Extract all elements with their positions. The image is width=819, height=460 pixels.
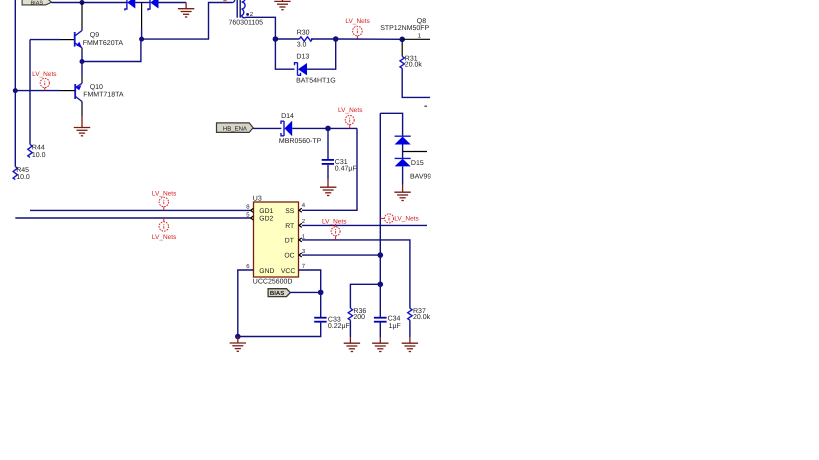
wire R30 left [275,38,299,40]
pin arrow OC [299,253,302,257]
svg-text:20.0k: 20.0k [405,61,423,69]
resistor R36 [348,308,352,320]
svg-text:DT: DT [285,238,294,245]
node junction R30 right [333,36,339,42]
svg-text:SS: SS [285,208,295,215]
svg-text:10.0: 10.0 [16,174,30,181]
net LV_Nets (RT right) [380,214,419,223]
node junction C31 top [325,126,331,132]
wire main vertical (D15 to C34) [379,113,381,317]
wire DT pin to R37 [302,240,410,308]
pin arrow DT [299,238,302,242]
ground (C33/GND) [230,343,246,351]
resistor R37 [408,308,412,320]
wire D15 to ground [402,166,404,184]
wire R31 down and right (cut) [402,68,430,97]
port HB_ENA [217,123,254,132]
frame clip right edge [431,0,819,460]
ground (top left of transformer) [178,3,194,18]
wire D14 to C31 node [292,127,357,129]
wire D15 loop top [380,113,402,136]
wire between diodes [135,2,150,4]
wire SS pin up to HB node [302,128,357,210]
net LV_Nets (HB node) [338,107,363,128]
capacitor C33 [314,318,326,322]
svg-text:BAT54HT1G: BAT54HT1G [296,77,336,84]
diode D12 (cut at top) [148,0,159,11]
transformer secondary coil [242,0,246,18]
svg-text:STP12NM50FP: STP12NM50FP [380,25,429,32]
pin Q8 gate (cut) [402,38,430,40]
Q8 source tick (cut) [424,105,427,107]
wire C31 to ground [327,165,329,179]
wire C31 stem [327,128,329,159]
node junction emitter [80,59,85,64]
transistor Q9 [60,3,82,53]
svg-text:RT: RT [285,223,294,230]
node junction tap [139,37,144,42]
pin D15 common tap (cut) [403,151,427,153]
pin arrow RT [299,223,302,227]
net LV_Nets (GD2) [152,218,177,241]
ground (D15) [394,192,410,200]
ground (R37) [402,343,418,351]
wire RT pin (cut right) [302,224,427,226]
wire emitter loop to tap [82,39,141,61]
wire C33 bottom to GND node [238,323,321,337]
node junction Q8 gate [399,37,405,43]
wire secondary pin 2 down [246,17,276,39]
svg-text:LV_Nets: LV_Nets [152,191,177,198]
wire C34 to ground [379,323,381,337]
diode D13 BAT54HT1G [295,63,308,76]
svg-text:R45: R45 [16,167,29,174]
svg-text:R44: R44 [32,145,45,152]
resistor R45 [13,167,17,180]
resistor R30 [299,37,312,41]
wire D13 loop right [307,39,336,69]
op-amp controller U3 UCC25600D [253,196,299,286]
wire R30 right [311,38,336,40]
svg-text:10.0: 10.0 [32,152,46,159]
diode D15a [395,136,411,144]
wire left column R44 line [29,40,31,145]
ground (C31) [320,187,336,195]
wire GND pin 6 down [238,270,254,337]
wire tap down from diodes [141,3,143,29]
polarity dot [246,13,249,16]
svg-text:LV_Nets: LV_Nets [394,216,419,223]
svg-text:3.0: 3.0 [297,41,307,48]
wire GND stem [237,337,239,343]
svg-text:VCC: VCC [281,268,295,275]
svg-text:LV_Nets: LV_Nets [345,18,370,25]
svg-text:GND: GND [259,268,274,275]
net LV_Nets (DT) [322,218,347,240]
diode D14 MBR0560-TP [281,121,292,137]
wire HB_ENA to D14 [253,127,281,129]
svg-text:BIAS: BIAS [31,1,44,7]
node junction BIAS [318,290,324,296]
svg-text:LV_Nets: LV_Nets [322,218,347,225]
transformer core [236,0,238,18]
ground (top right, cut) [274,0,290,10]
svg-text:FMMT718TA: FMMT718TA [83,92,124,99]
svg-text:BAV99: BAV99 [410,174,431,181]
svg-text:FMMT620TA: FMMT620TA [83,40,124,47]
transformer T 760301105 [223,0,263,27]
pin arrow SS [299,208,302,212]
svg-text:UCC25600D: UCC25600D [253,278,293,285]
wire diode to ground stem [159,2,187,4]
wire OC pin [302,254,380,256]
wire Q9 base to left column [30,39,60,41]
wire VCC pin 7 down [299,270,321,318]
wire R36 top [350,284,380,308]
wire GD2 from left column to U3 [15,217,250,219]
wire Q10 base to left line [15,90,60,92]
node junction C34 top [378,282,384,288]
ground (C34) [372,343,388,351]
wire R37 to ground [409,320,411,337]
pin arrow GD2 [251,216,254,220]
wire to Q8 gate [336,38,403,40]
svg-text:D15: D15 [411,160,424,167]
svg-text:0.47µF: 0.47µF [335,166,357,173]
svg-text:D13: D13 [296,54,309,61]
diode D11 (cut at top) [125,0,135,11]
svg-text:20.0k: 20.0k [413,313,431,321]
svg-text:LV_Nets: LV_Nets [338,107,363,114]
node junction R30 left [273,36,279,42]
resistor R44 [28,144,32,157]
svg-text:R30: R30 [297,29,310,36]
port BIAS (top) [22,0,51,7]
capacitor C31 [322,160,334,164]
svg-text:MBR0560-TP: MBR0560-TP [279,138,322,145]
svg-text:U3: U3 [253,196,262,203]
net LV_Nets (gate drive) [345,18,370,39]
wire GD1 from left column to U3 [30,209,251,211]
pin arrow GD1 [251,208,254,212]
transformer primary coil [232,0,235,3]
svg-text:Q9: Q9 [90,32,99,39]
node junction GND [235,334,241,340]
svg-text:LV_Nets: LV_Nets [32,71,57,78]
node junction OC [378,252,384,258]
svg-text:OC: OC [284,253,294,260]
node junction at Q9 collector [80,0,85,5]
capacitor C34 [374,318,387,322]
svg-text:C34: C34 [388,315,401,322]
svg-text:Q10: Q10 [90,84,103,91]
wire R36 to ground [349,320,351,337]
wire D13 loop left [275,39,294,69]
wire Q9 emitter to Q10 [81,52,83,76]
svg-text:LV_Nets: LV_Nets [152,234,177,241]
ground (R36) [344,343,360,351]
svg-text:BIAS: BIAS [270,290,284,297]
transistor Q10 [60,83,82,116]
svg-text:GD1: GD1 [259,208,273,215]
svg-text:GD2: GD2 [259,215,273,222]
port BIAS (bottom) [268,289,290,298]
svg-text:0.22µF: 0.22µF [328,323,350,330]
wire Q10 collector to ground [81,116,83,127]
ground (Q10) [74,128,90,136]
wire tap to transformer primary [142,3,232,40]
resistor R31 [400,42,404,69]
node junction Q10 base left [13,88,18,93]
svg-text:1µF: 1µF [389,323,401,330]
svg-text:D14: D14 [281,113,294,120]
wire left column R45 line [14,0,16,167]
svg-text:760301105: 760301105 [229,20,264,27]
wire BIAS to VCC line [290,291,320,293]
red net fragment at top [223,0,226,1]
diode D15b [395,158,411,166]
net LV_Nets (Q10 base) [32,71,57,90]
net LV_Nets (GD1) [152,191,177,211]
svg-text:200: 200 [353,314,365,321]
wire BIAS rail top [52,2,127,4]
svg-text:HB_ENA: HB_ENA [223,125,247,132]
wire between D15 diodes [402,145,404,159]
